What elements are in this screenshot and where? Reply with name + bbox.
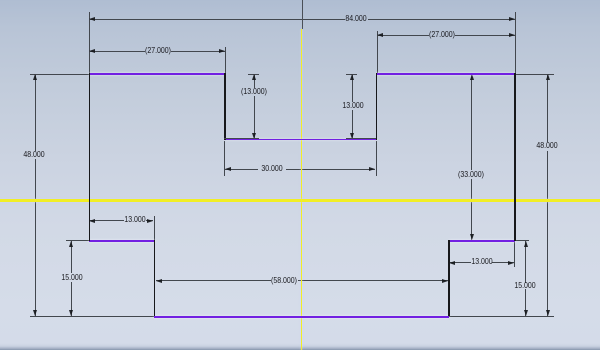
- extension line: above top-right corner: [515, 12, 516, 73]
- extension line: notch top tick for 13.000 right: [346, 74, 357, 75]
- dimension 30.000 notch width: [0, 0, 600, 1]
- extension line: below notch right corner: [376, 141, 377, 176]
- part edge: notch left vertical: [224, 73, 226, 139]
- extension line: bottom-left 13 right reference: [154, 216, 155, 241]
- part edge: left vertical: [89, 73, 91, 241]
- dimension (27.000) top-right: [0, 0, 600, 1]
- extension line: above top-left corner: [89, 12, 90, 73]
- part edge: top-left horizontal: [89, 73, 225, 75]
- extension line: left step top: [66, 240, 89, 241]
- extension line: left 48 top (horizontal at part top-left): [30, 74, 89, 75]
- extension line: above notch right corner: [377, 31, 378, 74]
- dimension (33.000) right upper height: [0, 0, 600, 1]
- dimension 13.000 notch depth right: [0, 0, 600, 1]
- centerline upper gray segment: [302, 0, 303, 29]
- extension line: bottom-right 13 right reference: [514, 242, 515, 267]
- extension line: right 48 top (horizontal at part top-right): [516, 74, 554, 75]
- part edge: left step top horizontal: [89, 240, 155, 242]
- dimension (58.000) bottom span: [0, 0, 600, 1]
- part edge: right step vertical: [448, 240, 450, 316]
- part edge: right vertical: [514, 73, 516, 241]
- dimension (27.000) top-left: [0, 0, 600, 1]
- part edge: right step top horizontal: [449, 240, 515, 242]
- extension line: below notch left corner: [224, 141, 225, 176]
- vertical centerline (Y axis, yellow): [301, 29, 303, 350]
- horizontal centerline (X axis, yellow): [0, 199, 600, 202]
- dimension (13.000) notch depth left: [0, 0, 600, 1]
- part edge: notch bottom horizontal: [224, 139, 377, 141]
- extension line: right step top: [516, 240, 529, 241]
- extension line: right 48/15 bottom (horizontal at part bottom-right): [449, 316, 554, 317]
- part edge: notch right vertical: [376, 73, 378, 139]
- part edge: bottom horizontal: [154, 316, 449, 318]
- dimension 13.000 bottom-left step width: [0, 0, 600, 1]
- dimension 48.000 right overall height: [0, 0, 600, 1]
- dimension 13.000 bottom-right step width: [0, 0, 600, 1]
- dimension 15.000 right step height: [0, 0, 600, 1]
- dimension 48.000 left overall height: [0, 0, 600, 1]
- extension line: left 48/15 bottom (horizontal at part bottom-left): [30, 316, 154, 317]
- extension line: notch top tick for (13.000): [248, 74, 259, 75]
- extension line: above notch left corner: [225, 47, 226, 74]
- part edge: top-right horizontal: [376, 73, 515, 75]
- extension line: notch bottom left (over part edge): [224, 138, 259, 139]
- dimension 84.000 (top overall width): [0, 0, 600, 1]
- extension line: notch bottom right (over part edge): [346, 138, 376, 139]
- dimension 15.000 left step height: [0, 0, 600, 1]
- part edge: left step vertical: [154, 240, 156, 316]
